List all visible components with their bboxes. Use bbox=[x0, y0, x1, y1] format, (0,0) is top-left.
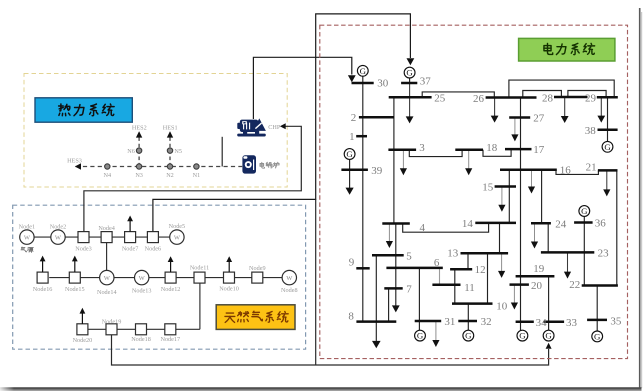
gas node Node2 (source W) bbox=[51, 230, 65, 244]
load arrow bus31 bbox=[435, 321, 437, 342]
node N6 bbox=[136, 148, 141, 153]
svg-text:N3: N3 bbox=[135, 172, 143, 179]
gas node Node9 bbox=[252, 272, 263, 283]
wire row3 to Node11 bbox=[199, 283, 201, 329]
wire bus26-bus27-bus17-bus16-bus19-bus20-bus34 chain + G34 stem bbox=[520, 98, 522, 331]
bus 9 bbox=[356, 267, 369, 270]
svg-text:Node6: Node6 bbox=[145, 245, 162, 252]
bus 16 bbox=[500, 169, 557, 172]
load arrow at Node12 bbox=[170, 262, 172, 272]
svg-text:20: 20 bbox=[531, 280, 543, 292]
svg-text:W: W bbox=[104, 275, 111, 282]
power system dashed boundary box bbox=[320, 25, 628, 358]
svg-text:39: 39 bbox=[371, 165, 383, 177]
bus 36 bbox=[574, 221, 593, 224]
load arrow bus27 bbox=[514, 118, 516, 136]
load arrow bus15 bbox=[501, 187, 503, 207]
natural gas system dashed boundary box bbox=[13, 205, 306, 349]
load arrow at Node7 bbox=[129, 221, 131, 232]
gas node Node10 bbox=[224, 272, 235, 283]
svg-text:22: 22 bbox=[569, 279, 580, 291]
bus 32 bbox=[458, 320, 477, 323]
bus 15 bbox=[495, 185, 516, 188]
heat pipe main (dashed) bbox=[76, 166, 243, 168]
svg-text:8: 8 bbox=[348, 310, 354, 322]
svg-text:Node12: Node12 bbox=[161, 286, 181, 293]
wire bus28 to bus29 bbox=[568, 91, 606, 98]
gas node Node18 bbox=[136, 324, 147, 335]
bus 24 bbox=[531, 222, 551, 225]
svg-text:G: G bbox=[604, 142, 611, 152]
CHP unit icon bbox=[237, 118, 266, 136]
arrow to HES3 bbox=[75, 163, 81, 169]
wire bus16 to bus21 bbox=[556, 170, 598, 175]
gas node Node5 (source W) bbox=[170, 230, 184, 244]
load arrow bus24 bbox=[534, 223, 536, 243]
wire bus16-bus15-bus14 chain bbox=[508, 170, 510, 223]
svg-text:Node20: Node20 bbox=[73, 337, 93, 344]
wire bus16 to bus24 bbox=[541, 170, 543, 224]
wire G36-bus36-bus23-bus22 chain bbox=[583, 216, 585, 285]
node N5 bbox=[167, 148, 172, 153]
svg-text:Node3: Node3 bbox=[75, 245, 92, 252]
gas node Node8 (source W) bbox=[282, 270, 296, 284]
svg-text:Node1: Node1 bbox=[19, 224, 36, 231]
gas node Node6 bbox=[147, 232, 158, 243]
bus 5 bbox=[372, 254, 404, 257]
wire bus24 to bus23 bbox=[547, 223, 549, 252]
wire bus6-bus31 + G31 stem bbox=[418, 268, 420, 330]
svg-text:G: G bbox=[594, 332, 601, 342]
svg-text:31: 31 bbox=[444, 316, 455, 328]
load arrow bus23 bbox=[567, 252, 569, 273]
svg-text:16: 16 bbox=[560, 165, 572, 177]
load arrow at Node16 bbox=[42, 261, 44, 272]
svg-text:37: 37 bbox=[420, 75, 432, 87]
power system label box 电力系统 bbox=[519, 38, 615, 61]
svg-text:Node5: Node5 bbox=[169, 223, 186, 230]
bus 11 bbox=[432, 284, 460, 287]
gas pipeline row3 bbox=[88, 328, 200, 330]
svg-text:Node11: Node11 bbox=[190, 264, 209, 271]
node N3 bbox=[136, 164, 141, 169]
bus 38 bbox=[598, 129, 618, 132]
bus 26 bbox=[486, 96, 537, 99]
svg-text:Node18: Node18 bbox=[131, 336, 151, 343]
svg-text:33: 33 bbox=[566, 317, 578, 329]
svg-text:1: 1 bbox=[349, 131, 355, 143]
svg-text:W: W bbox=[139, 275, 146, 282]
wire bus3 to bus18 bbox=[409, 150, 462, 157]
svg-text:29: 29 bbox=[585, 93, 597, 105]
gas node Node14 (source W) bbox=[100, 270, 114, 284]
svg-text:Node14: Node14 bbox=[97, 289, 117, 296]
svg-text:11: 11 bbox=[464, 282, 475, 294]
svg-text:14: 14 bbox=[462, 218, 474, 230]
svg-text:Node15: Node15 bbox=[65, 286, 85, 293]
svg-text:Node10: Node10 bbox=[219, 285, 239, 292]
gas node Node12 bbox=[165, 272, 176, 283]
bus 8 bbox=[356, 320, 396, 323]
svg-text:CHP: CHP bbox=[268, 124, 281, 131]
load arrow at Node20 bbox=[81, 313, 83, 324]
wire bus22-bus35 + G35 stem bbox=[596, 286, 598, 332]
wire Node4 to Node14 bbox=[106, 242, 108, 271]
bus 17 bbox=[505, 148, 532, 151]
bus 39 bbox=[341, 169, 368, 172]
wire bus26 to bus28 (inner) bbox=[523, 91, 562, 98]
generator G30 bbox=[357, 65, 368, 76]
wire bus18 to bus17 bbox=[483, 149, 511, 156]
natural gas system label box 天然气系统 bbox=[216, 305, 295, 330]
gas node Node19 bbox=[106, 324, 117, 335]
svg-text:HES2: HES2 bbox=[132, 125, 147, 132]
svg-text:N5: N5 bbox=[174, 148, 182, 155]
gas node Node11 bbox=[194, 272, 205, 283]
svg-text:Node8: Node8 bbox=[281, 287, 298, 294]
svg-text:6: 6 bbox=[434, 257, 440, 269]
generator G32 bbox=[463, 330, 474, 341]
wire bus25-bus2-bus3-bus4 chain bbox=[393, 97, 395, 223]
wire bus14 to bus13 bbox=[499, 223, 501, 253]
svg-text:W: W bbox=[55, 235, 62, 242]
gas node Node17 bbox=[165, 324, 176, 335]
svg-text:HES1: HES1 bbox=[163, 125, 178, 132]
svg-text:W: W bbox=[174, 235, 181, 242]
wire bus4-bus5-bus6-bus7 chain + load arrow bus7 bbox=[395, 224, 397, 306]
load arrow bus28 bbox=[564, 97, 566, 118]
svg-text:3: 3 bbox=[419, 142, 425, 154]
wire bus4 to bus14 bbox=[403, 223, 489, 232]
wire CHP heat output to pipe bbox=[221, 137, 223, 167]
wire gas vertical feeder join bbox=[315, 199, 317, 365]
pipe branch to HES1 (dashed vertical) bbox=[169, 133, 171, 167]
generator G34 bbox=[517, 330, 528, 341]
svg-text:10: 10 bbox=[496, 300, 508, 312]
bus 27 bbox=[509, 116, 530, 119]
bus 28 bbox=[554, 96, 588, 99]
bus 37 bbox=[401, 82, 417, 85]
bus 22 bbox=[582, 284, 618, 287]
svg-text:21: 21 bbox=[586, 162, 597, 174]
svg-text:17: 17 bbox=[533, 144, 545, 156]
thermal system dashed boundary box bbox=[24, 74, 287, 188]
wire bus21 to bus22 bbox=[616, 170, 618, 285]
bus 21 bbox=[598, 169, 618, 172]
svg-text:G: G bbox=[545, 331, 552, 341]
node N2 bbox=[167, 164, 172, 169]
svg-text:Node17: Node17 bbox=[161, 336, 181, 343]
svg-text:4: 4 bbox=[420, 222, 426, 234]
bus 18 bbox=[455, 149, 483, 152]
wire bus6 to bus11 (gray) bbox=[439, 268, 441, 285]
arrow to HES2 bbox=[136, 131, 142, 137]
gas node Node4 bbox=[101, 232, 112, 243]
svg-text:28: 28 bbox=[542, 92, 554, 104]
svg-text:24: 24 bbox=[555, 218, 567, 230]
bus 14 bbox=[475, 222, 516, 225]
arrow to HES1 bbox=[167, 131, 173, 137]
svg-text:32: 32 bbox=[481, 316, 492, 328]
gas node Node20 bbox=[77, 324, 88, 335]
bus 29 bbox=[597, 96, 618, 99]
svg-text:N6: N6 bbox=[127, 148, 135, 155]
bus 30 bbox=[352, 82, 374, 85]
svg-text:36: 36 bbox=[595, 218, 607, 230]
svg-text:30: 30 bbox=[377, 78, 389, 90]
wire G37 stem bbox=[409, 78, 411, 83]
thermal system label box 热力系统 bbox=[35, 98, 132, 122]
gas node Node7 bbox=[125, 232, 136, 243]
svg-text:5: 5 bbox=[406, 250, 412, 262]
bus 1 bbox=[356, 135, 367, 138]
load arrow bus16 bbox=[531, 170, 533, 188]
bus 2 bbox=[359, 116, 394, 119]
bus 20 bbox=[510, 283, 529, 286]
pipe branch to HES2 (dashed vertical) bbox=[138, 133, 140, 167]
bus 33 bbox=[544, 320, 565, 323]
generator G33 bbox=[543, 330, 554, 341]
bus 31 bbox=[415, 320, 442, 323]
svg-text:38: 38 bbox=[585, 125, 597, 137]
load arrow bus21 bbox=[606, 170, 608, 191]
svg-text:G: G bbox=[465, 331, 472, 341]
svg-text:23: 23 bbox=[598, 248, 610, 260]
svg-text:W: W bbox=[286, 275, 293, 282]
svg-text:N4: N4 bbox=[104, 172, 112, 179]
svg-text:G: G bbox=[406, 68, 413, 78]
generator G39 bbox=[344, 149, 355, 160]
gas node Node16 bbox=[37, 272, 48, 283]
wire bus25 to bus26 bbox=[422, 92, 494, 98]
bus 13 bbox=[461, 252, 509, 255]
load arrow bus3 bbox=[402, 150, 404, 170]
svg-text:Node7: Node7 bbox=[122, 245, 139, 252]
svg-text:15: 15 bbox=[482, 182, 494, 194]
load arrow bus26 bbox=[494, 98, 496, 118]
gas node Node13 (source W) bbox=[135, 270, 149, 284]
wire gas Node6 to generator 37 bbox=[153, 14, 411, 232]
load arrow at Node10 bbox=[228, 262, 230, 272]
bus 35 bbox=[587, 319, 607, 322]
load arrow bus25 bbox=[409, 83, 411, 118]
svg-text:G: G bbox=[346, 149, 353, 159]
wire bus30-bus2-bus1-bus39-bus9-bus8 chain bbox=[362, 76, 364, 321]
svg-text:G: G bbox=[360, 66, 367, 76]
svg-text:18: 18 bbox=[486, 142, 498, 154]
wire CHP gas supply: Node3 up to CHP arrow bbox=[84, 126, 301, 231]
svg-text:2: 2 bbox=[351, 112, 357, 124]
svg-text:35: 35 bbox=[610, 315, 622, 327]
generator G31 bbox=[415, 330, 426, 341]
wire bus19 to bus33 + G33 stem bbox=[548, 276, 550, 330]
node N1 bbox=[194, 164, 199, 169]
svg-text:Node16: Node16 bbox=[33, 286, 53, 293]
load arrow bus18 bbox=[468, 150, 470, 170]
generator G37 bbox=[404, 67, 415, 78]
load arrow bus20 bbox=[513, 285, 515, 304]
wire bus12-bus11-bus10 chain bbox=[454, 269, 456, 303]
label 电锅炉 bbox=[260, 162, 264, 168]
generator G35 bbox=[592, 331, 603, 342]
wire bus10-bus32 + G32 stem bbox=[467, 304, 469, 331]
generator G36 bbox=[579, 206, 590, 217]
svg-text:W: W bbox=[24, 234, 31, 241]
wire bus13 to bus10 bbox=[487, 253, 489, 303]
gas node Node3 bbox=[78, 232, 89, 243]
gas node Node1 (source W) bbox=[20, 230, 34, 244]
svg-text:27: 27 bbox=[533, 112, 545, 124]
svg-text:9: 9 bbox=[349, 257, 355, 269]
generator G38 bbox=[602, 141, 613, 152]
wire bus5 to bus8 + load arrow bus8 bbox=[375, 255, 377, 341]
svg-text:26: 26 bbox=[473, 93, 485, 105]
load arrow bus4 bbox=[388, 224, 390, 243]
svg-text:N1: N1 bbox=[193, 172, 201, 179]
frame bottom shadow bar bbox=[0, 387, 642, 389]
svg-text:G: G bbox=[519, 331, 526, 341]
wire bus13 to bus12 bbox=[467, 253, 469, 269]
electric boiler icon 电锅炉 bbox=[242, 155, 256, 173]
bus 6 bbox=[386, 267, 442, 270]
wire bus7 to bus8 bbox=[388, 288, 390, 321]
bus 12 bbox=[450, 268, 472, 271]
svg-text:Node13: Node13 bbox=[132, 287, 152, 294]
svg-text:7: 7 bbox=[406, 283, 412, 295]
bus 25 bbox=[389, 96, 432, 99]
node N4 bbox=[105, 164, 110, 169]
load arrow bus29 bbox=[600, 97, 602, 117]
svg-text:34: 34 bbox=[536, 317, 548, 329]
svg-text:G: G bbox=[417, 331, 424, 341]
svg-text:19: 19 bbox=[533, 263, 545, 275]
svg-text:N2: N2 bbox=[166, 172, 174, 179]
bus 3 bbox=[388, 149, 416, 152]
svg-text:Node4: Node4 bbox=[98, 225, 115, 232]
label 气源 bbox=[21, 247, 26, 252]
svg-text:Node2: Node2 bbox=[50, 224, 67, 231]
bus 19 bbox=[516, 275, 555, 278]
gas pipeline row2 bbox=[49, 277, 283, 279]
bus 10 bbox=[452, 302, 493, 305]
svg-text:25: 25 bbox=[434, 93, 446, 105]
wire CHP electric output to bus30 bbox=[253, 57, 351, 119]
bus 34 bbox=[516, 320, 534, 323]
bus 7 bbox=[384, 287, 402, 290]
load arrow bus13 bbox=[501, 253, 503, 272]
gas pipeline row1 bbox=[34, 236, 171, 238]
load arrow at Node15 bbox=[74, 261, 76, 272]
gas node Node15 bbox=[69, 272, 80, 283]
frame right edge bbox=[639, 8, 641, 388]
bus 23 bbox=[541, 251, 594, 254]
svg-text:Node19: Node19 bbox=[102, 319, 122, 326]
svg-text:Node9: Node9 bbox=[249, 265, 266, 272]
svg-text:13: 13 bbox=[447, 248, 459, 260]
svg-text:12: 12 bbox=[475, 264, 486, 276]
svg-text:HES3: HES3 bbox=[67, 157, 82, 164]
svg-text:G: G bbox=[581, 206, 588, 216]
bus 4 bbox=[382, 222, 410, 225]
wire bus29-bus38 + G38 stem bbox=[607, 97, 609, 141]
wire bus26 to bus29 (outer) bbox=[509, 80, 614, 97]
wire gas Node19 to generator 33 bbox=[112, 335, 549, 365]
wire G39 stem + load arrow bus39 bbox=[349, 160, 351, 189]
